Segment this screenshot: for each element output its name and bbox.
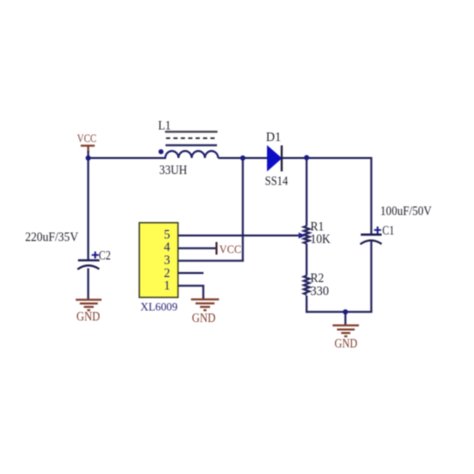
node: diode cathode / R1 junction (304, 155, 309, 160)
ground (bottom right) (333, 325, 359, 336)
power flag VCC (pin 4) (217, 242, 242, 256)
wire: pin 1 stub to ground (178, 286, 203, 299)
node: VCC / C2 junction (86, 155, 91, 160)
svg-text:GND: GND (192, 311, 216, 325)
resistor R1 (10K trimmer) (304, 226, 310, 244)
svg-text:D1: D1 (266, 130, 281, 144)
svg-text:1: 1 (164, 279, 170, 293)
svg-text:C1: C1 (382, 223, 394, 237)
IC U1 XL6009 body (139, 223, 178, 298)
wire: FB node vertical down to R1 (306, 157, 308, 226)
svg-text:100uF/50V: 100uF/50V (380, 204, 432, 218)
power flag VCC (top left) (77, 131, 97, 152)
capacitor C1 (360, 227, 381, 245)
wire: below C1 to bottom rail (370, 241, 372, 312)
ground (below IC) (191, 299, 219, 310)
resistor R2 (304, 276, 310, 295)
wire: inductor to diode anode (218, 157, 268, 159)
wire: pin 5 to R1 wiper (178, 235, 299, 237)
wire: diode cathode to top-right corner (282, 157, 372, 159)
ground (left, below C2) (76, 300, 102, 311)
inductor L1 (159, 132, 219, 158)
svg-text:330: 330 (310, 284, 329, 298)
svg-text:C2: C2 (99, 249, 111, 263)
svg-text:GND: GND (335, 337, 358, 351)
svg-text:4: 4 (164, 240, 171, 254)
svg-text:10K: 10K (310, 232, 330, 246)
svg-text:R2: R2 (310, 271, 324, 285)
wire: SW vertical from top rail node down to pin 3 (242, 157, 244, 261)
svg-text:SS14: SS14 (265, 174, 289, 188)
wire: left branch from VCC node down to C2 (87, 157, 89, 260)
wire: VCC stub to main node (87, 151, 89, 158)
svg-text:3: 3 (164, 253, 170, 267)
capacitor C2 (78, 252, 100, 270)
wire: R2 bottom to bottom rail (306, 296, 308, 313)
wire: pin 4 stub (178, 247, 216, 249)
svg-text:220uF/35V: 220uF/35V (25, 230, 78, 244)
svg-text:33UH: 33UH (159, 163, 187, 177)
wire: ground stub on bottom rail (344, 312, 346, 325)
wiper arrow into R1 (299, 233, 306, 239)
wire: C2 bottom to ground (87, 268, 89, 299)
wire: between R1 and R2 (306, 244, 308, 276)
wire: pin 2 stub (178, 272, 204, 274)
svg-text:VCC: VCC (77, 131, 97, 145)
wire: pin 3 stub (178, 260, 244, 262)
wire: right branch down to C1 (370, 157, 372, 235)
wire: main top rail from VCC node to inductor (87, 157, 166, 159)
node: inductor output / SW junction (240, 155, 245, 160)
svg-text:XL6009: XL6009 (140, 300, 177, 314)
diode D1 (268, 145, 282, 171)
svg-text:GND: GND (76, 310, 100, 324)
node: bottom rail ground junction (343, 309, 348, 314)
wire: bottom rail (307, 311, 373, 313)
svg-text:VCC: VCC (219, 242, 241, 256)
svg-text:L1: L1 (158, 118, 171, 132)
